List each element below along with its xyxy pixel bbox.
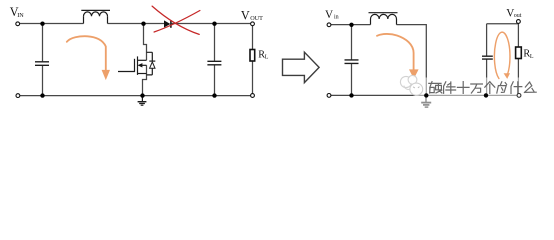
svg-text:IN: IN bbox=[17, 12, 24, 19]
terminal Vout+ (right) bbox=[517, 20, 521, 24]
char 十 bbox=[457, 82, 469, 94]
svg-text:out: out bbox=[514, 13, 522, 19]
watermark text 硬件十万个为什么 (simplified strokes) bbox=[429, 82, 536, 94]
red X stroke 1 bbox=[152, 6, 199, 34]
ground (right) bbox=[421, 95, 431, 107]
svg-text:L: L bbox=[265, 55, 269, 61]
capacitor C2 bbox=[207, 61, 221, 65]
orange arrow (left circuit) bbox=[67, 36, 110, 80]
capacitor C1 bbox=[35, 62, 49, 66]
svg-text:L: L bbox=[530, 54, 534, 60]
char 为 bbox=[497, 82, 507, 93]
svg-text:OUT: OUT bbox=[250, 15, 263, 22]
svg-text:V: V bbox=[325, 9, 333, 21]
wire cap C1 leads bbox=[42, 24, 44, 96]
svg-text:V: V bbox=[241, 9, 250, 23]
char 么 bbox=[524, 82, 536, 92]
wire Vout node bbox=[487, 24, 519, 47]
svg-text:in: in bbox=[334, 14, 339, 20]
wire top rail to corner and down bbox=[397, 25, 427, 96]
watermark logo bubbles bbox=[400, 75, 422, 95]
watermark white overlay bbox=[415, 78, 554, 112]
wire source to bottom rail bbox=[143, 65, 147, 95]
resistor RL (right) bbox=[516, 47, 522, 59]
char 个 bbox=[485, 82, 495, 94]
node dots right circuit bbox=[349, 23, 353, 98]
capacitor C4 bbox=[482, 56, 493, 59]
terminal Vout- (right) bbox=[517, 94, 521, 98]
inductor L2 bbox=[369, 13, 398, 25]
char 万 bbox=[471, 84, 483, 93]
wire top rail bbox=[331, 24, 371, 26]
resistor RL (left) bbox=[250, 50, 255, 62]
wire bottom rail bbox=[20, 95, 251, 97]
terminal Vin- (right) bbox=[327, 94, 331, 98]
terminal VOUT+ bbox=[251, 22, 255, 26]
char 硬 bbox=[429, 82, 442, 93]
char 件 bbox=[444, 82, 456, 94]
capacitor C3 bbox=[345, 60, 359, 64]
wire RL leads bbox=[252, 26, 254, 94]
wire top rail middle bbox=[108, 23, 165, 25]
transistor Q1 (NMOS with body diode) bbox=[118, 52, 155, 75]
wire cap C4 leads bbox=[486, 24, 488, 96]
node dots left circuit bbox=[40, 22, 216, 98]
orange loop arrow (right circuit) bbox=[494, 32, 510, 79]
wire bottom rail bbox=[331, 94, 517, 96]
wire cap C2 leads bbox=[214, 24, 216, 96]
ground (left) bbox=[138, 96, 147, 106]
char 什 bbox=[511, 82, 522, 94]
wire top rail right bbox=[172, 23, 251, 25]
wire cap C3 leads bbox=[351, 25, 353, 96]
terminal VIN+ bbox=[16, 22, 20, 26]
diode D1 crossed out bbox=[164, 20, 171, 28]
node dot (right cap C4, under watermark) bbox=[484, 93, 488, 97]
node dot (right circuit, under watermark) bbox=[424, 93, 428, 97]
red X stroke 2 bbox=[154, 11, 200, 33]
inductor L1 bbox=[81, 10, 110, 23]
Q1 arrow head bbox=[138, 63, 143, 67]
terminal VOUT- bbox=[251, 94, 255, 98]
wire top rail left bbox=[20, 23, 84, 25]
terminal VIN- bbox=[16, 94, 20, 98]
terminal Vin+ (right) bbox=[327, 23, 331, 27]
orange arrow (right circuit) bbox=[377, 34, 419, 79]
wire drain from node A bbox=[144, 24, 147, 61]
wire R2 bottom lead bbox=[517, 59, 519, 94]
